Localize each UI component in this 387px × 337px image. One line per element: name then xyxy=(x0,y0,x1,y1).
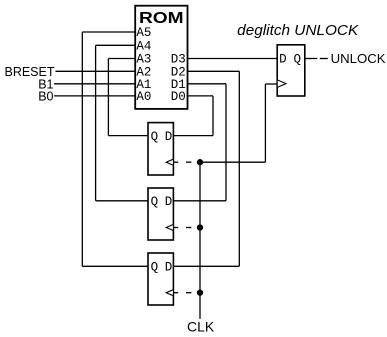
wire FF3 clock stub dashed xyxy=(173,292,191,294)
junction CLK FF1 xyxy=(197,159,203,165)
svg-text:D: D xyxy=(279,53,287,67)
net label CLK xyxy=(187,319,215,335)
net label B1 xyxy=(38,78,53,92)
wire FF1 Q to ROM A3 xyxy=(108,59,148,136)
ROM pin A2 xyxy=(136,66,151,80)
svg-text:A5: A5 xyxy=(136,26,151,40)
wire FF2 clock stub dashed xyxy=(173,227,191,229)
ROM pin A1 xyxy=(136,78,151,92)
svg-text:D: D xyxy=(165,260,173,274)
ROM pin A0 xyxy=(136,90,151,104)
net label UNLOCK xyxy=(331,52,387,66)
flip-flop FF2 xyxy=(148,188,173,240)
wire U2 Q to UNLOCK xyxy=(305,58,328,60)
junction CLK FF3 xyxy=(197,290,203,296)
ROM pin D2 xyxy=(171,66,186,80)
junction CLK FF2 xyxy=(197,224,203,230)
wire ROM D0 to FF1 D xyxy=(173,96,213,136)
svg-text:D: D xyxy=(165,130,173,144)
wire CLK vertical net xyxy=(199,162,201,319)
flip-flop FF3 xyxy=(148,253,173,305)
wire B0 to ROM A0 xyxy=(54,95,135,97)
wire FF1 clock stub dashed xyxy=(173,161,191,163)
ROM U1 xyxy=(135,6,187,109)
svg-text:A4: A4 xyxy=(136,40,151,54)
ROM pin A4 xyxy=(136,40,151,54)
wire CLK to U2 clock xyxy=(200,84,277,162)
svg-text:Q: Q xyxy=(151,195,159,209)
wire B1 to ROM A1 xyxy=(54,83,135,85)
net label BRESET xyxy=(4,65,54,79)
svg-text:Q: Q xyxy=(294,53,302,67)
svg-text:B0: B0 xyxy=(38,90,53,104)
svg-text:A0: A0 xyxy=(136,90,151,104)
svg-text:Q: Q xyxy=(151,130,159,144)
ROM pin A3 xyxy=(136,53,151,67)
svg-text:CLK: CLK xyxy=(187,319,215,335)
wire ROM D3 to U2 D xyxy=(188,58,278,60)
net label B0 xyxy=(38,90,53,104)
svg-text:D0: D0 xyxy=(171,90,186,104)
ROM pin D3 xyxy=(171,53,186,67)
wire FF3 Q to ROM A5 xyxy=(82,32,148,266)
wire ROM D2 to FF3 D xyxy=(173,71,239,266)
ROM pin D1 xyxy=(171,78,186,92)
wire ROM D1 to FF2 D xyxy=(173,84,226,201)
svg-text:deglitch UNLOCK: deglitch UNLOCK xyxy=(237,22,359,39)
flip-flop U2 deglitch xyxy=(277,45,305,96)
svg-text:D: D xyxy=(165,195,173,209)
ROM pin D0 xyxy=(171,90,186,104)
svg-text:Q: Q xyxy=(151,260,159,274)
wire BRESET to ROM A2 xyxy=(56,70,136,72)
svg-text:ROM: ROM xyxy=(139,10,184,27)
ROM pin A5 xyxy=(136,26,151,40)
title deglitch UNLOCK xyxy=(237,22,359,39)
svg-text:UNLOCK: UNLOCK xyxy=(331,52,387,66)
wire FF2 Q to ROM A4 xyxy=(96,45,148,201)
flip-flop FF1 xyxy=(148,123,173,175)
